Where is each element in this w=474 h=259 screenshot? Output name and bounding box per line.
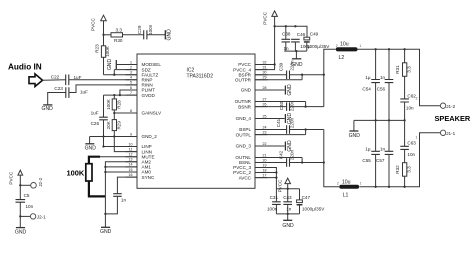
svg-text:L1: L1 bbox=[343, 193, 349, 199]
ground (bottom PVCC caps) bbox=[282, 214, 294, 229]
wire AVCC/PVCC_2/PVCC_3 bbox=[255, 168, 276, 189]
svg-text:14: 14 bbox=[129, 163, 133, 167]
svg-text:C43: C43 bbox=[283, 195, 292, 200]
svg-text:20K: 20K bbox=[106, 120, 111, 129]
capacitor C63 10n bbox=[400, 120, 416, 157]
power flag PVCC (top right) bbox=[263, 11, 278, 26]
svg-text:C22: C22 bbox=[51, 75, 60, 80]
svg-text:C31: C31 bbox=[270, 195, 279, 200]
svg-text:220n: 220n bbox=[289, 100, 294, 111]
svg-text:3.3: 3.3 bbox=[407, 166, 412, 173]
svg-text:J1-2: J1-2 bbox=[446, 104, 455, 109]
wire SYNC to cap bbox=[117, 177, 137, 193]
node OUT- rail junction bbox=[323, 161, 325, 163]
svg-text:PVCC: PVCC bbox=[263, 11, 268, 24]
node C57 bottom tap bbox=[388, 186, 390, 188]
svg-text:100K: 100K bbox=[67, 169, 85, 178]
IC2 right pin stubs bbox=[255, 65, 268, 178]
svg-text:29: 29 bbox=[263, 76, 267, 80]
wire L2 output bbox=[358, 49, 441, 105]
svg-text:C29: C29 bbox=[137, 25, 142, 34]
svg-text:GND_4: GND_4 bbox=[236, 116, 252, 121]
wire OUT+ rail to L2 bbox=[324, 49, 336, 106]
svg-text:GND: GND bbox=[100, 229, 112, 235]
wire to J2-1 bbox=[20, 215, 30, 217]
node GND_2 junctions bbox=[102, 135, 104, 137]
svg-text:1: 1 bbox=[360, 44, 362, 48]
svg-text:C55: C55 bbox=[362, 158, 371, 163]
IC2 left pin stubs bbox=[126, 65, 138, 178]
wire SDZ/FAULTZ pullup bbox=[104, 70, 138, 75]
svg-text:25: 25 bbox=[263, 114, 267, 118]
svg-text:15: 15 bbox=[129, 168, 133, 172]
svg-text:9: 9 bbox=[130, 132, 132, 136]
wire to J2-2 bbox=[20, 184, 30, 186]
svg-text:3.3: 3.3 bbox=[407, 66, 412, 73]
svg-text:21: 21 bbox=[263, 153, 267, 157]
IC2 left pin numbers bbox=[129, 60, 133, 177]
svg-text:1000µ/35V: 1000µ/35V bbox=[307, 44, 330, 49]
svg-text:24: 24 bbox=[263, 125, 267, 129]
svg-text:GND: GND bbox=[42, 106, 54, 112]
svg-text:2: 2 bbox=[336, 44, 338, 48]
svg-text:R31: R31 bbox=[395, 65, 400, 74]
svg-text:BSNR: BSNR bbox=[238, 104, 251, 109]
svg-text:C23: C23 bbox=[54, 86, 63, 91]
svg-text:10u: 10u bbox=[342, 180, 351, 186]
ground (GND_2) bbox=[85, 137, 97, 152]
svg-text:220n: 220n bbox=[289, 117, 294, 128]
wire bottom PVCC bus bbox=[276, 188, 299, 190]
svg-text:1uF: 1uF bbox=[80, 89, 88, 94]
svg-text:10n: 10n bbox=[407, 152, 415, 157]
wire bottom ground bus bbox=[276, 213, 299, 215]
svg-text:C46: C46 bbox=[297, 32, 306, 37]
inductor L1 10u bbox=[337, 180, 362, 199]
svg-text:GND: GND bbox=[166, 29, 172, 41]
node C55 bottom tap bbox=[374, 186, 376, 188]
svg-text:17: 17 bbox=[263, 173, 267, 177]
svg-text:20: 20 bbox=[263, 158, 267, 162]
svg-text:C49: C49 bbox=[310, 32, 319, 37]
svg-text:GND_2: GND_2 bbox=[142, 134, 158, 139]
ground (C23) bbox=[42, 105, 54, 112]
svg-text:C26: C26 bbox=[91, 121, 100, 126]
wire R30 feed bbox=[104, 34, 112, 36]
capacitor C5 10n bbox=[16, 185, 34, 216]
ground (pin 28 GND) bbox=[255, 84, 293, 96]
svg-text:19: 19 bbox=[263, 163, 267, 167]
ground (right of C29) bbox=[165, 29, 172, 41]
node FAULTZ junction bbox=[113, 74, 115, 76]
wire LINN to ground net bbox=[114, 137, 137, 152]
resistor R28 100K bbox=[106, 95, 122, 113]
capacitor C46 100u bbox=[291, 32, 311, 51]
IC2 left pin labels bbox=[142, 62, 163, 180]
wire PLIMT tie to GVDD bbox=[120, 90, 137, 95]
wire OUTPL bbox=[255, 130, 306, 135]
node C46 tap bbox=[294, 25, 296, 27]
svg-text:2: 2 bbox=[130, 65, 132, 69]
svg-text:8: 8 bbox=[130, 109, 132, 113]
connector J1-2 bbox=[416, 97, 456, 109]
capacitor C43 1n bbox=[283, 189, 292, 214]
svg-text:GND: GND bbox=[282, 223, 294, 229]
svg-text:1uF: 1uF bbox=[91, 111, 99, 116]
svg-text:1n: 1n bbox=[284, 46, 290, 51]
svg-text:31: 31 bbox=[263, 65, 267, 69]
svg-text:10n: 10n bbox=[406, 106, 414, 111]
svg-text:C47: C47 bbox=[302, 195, 311, 200]
svg-text:1n: 1n bbox=[286, 207, 292, 212]
svg-text:11: 11 bbox=[129, 147, 133, 151]
inductor L2 10u bbox=[336, 41, 362, 61]
wire OUT- rail to L1 bbox=[324, 130, 340, 187]
svg-text:C54: C54 bbox=[362, 87, 371, 92]
op-amp IC2 body bbox=[137, 54, 255, 188]
wire top ground bus bbox=[284, 50, 307, 52]
wire PVCC rail to pins 32/31 bbox=[255, 26, 275, 69]
connector J1-1 bbox=[416, 130, 456, 140]
svg-text:1n: 1n bbox=[121, 198, 127, 203]
wire OUTNR bbox=[255, 102, 306, 107]
svg-text:1n: 1n bbox=[380, 75, 386, 80]
svg-text:L2: L2 bbox=[339, 55, 345, 61]
svg-text:R23: R23 bbox=[94, 44, 99, 53]
svg-text:R28: R28 bbox=[117, 100, 122, 109]
svg-text:OUTPR: OUTPR bbox=[235, 78, 252, 83]
node R31 tap bbox=[403, 48, 405, 50]
svg-text:1000µ/35V: 1000µ/35V bbox=[302, 207, 325, 212]
svg-text:10u: 10u bbox=[340, 41, 349, 47]
wire GVDD line bbox=[104, 94, 138, 96]
ground (MODSEL pin 1) bbox=[107, 59, 137, 71]
wire OUTPR bbox=[255, 75, 302, 80]
node PVCC junction bbox=[102, 34, 104, 36]
svg-text:1uF: 1uF bbox=[74, 75, 82, 80]
svg-text:26: 26 bbox=[263, 102, 267, 106]
capacitor C41 220n (bootstrap PL) bbox=[255, 117, 324, 133]
svg-text:22: 22 bbox=[263, 142, 267, 146]
node mid bus junctions bbox=[374, 119, 376, 121]
wire OUTNL bbox=[255, 158, 302, 163]
svg-text:1: 1 bbox=[360, 182, 362, 186]
connector J2-1 bbox=[30, 214, 46, 220]
IC2 right pin labels bbox=[233, 62, 252, 180]
svg-text:GND_3: GND_3 bbox=[236, 144, 252, 149]
node PVCC pin junction bbox=[273, 63, 275, 65]
svg-text:1µ: 1µ bbox=[365, 75, 371, 80]
node C56 tap bbox=[388, 48, 390, 50]
capacitor C26 1uF (GVDD bypass) bbox=[91, 95, 108, 136]
svg-text:GND: GND bbox=[85, 145, 97, 151]
capacitor C22 1uF bbox=[51, 75, 82, 86]
svg-text:PVCC: PVCC bbox=[91, 18, 96, 31]
power flag PVCC (bottom right) bbox=[278, 178, 291, 192]
svg-text:220n: 220n bbox=[289, 149, 294, 160]
svg-text:SYNC: SYNC bbox=[142, 175, 155, 180]
capacitor C49 1000u/35V bbox=[304, 32, 330, 51]
node AVCC junction bbox=[275, 176, 277, 178]
svg-text:3: 3 bbox=[130, 71, 132, 75]
svg-text:30: 30 bbox=[263, 71, 267, 75]
svg-text:3.3: 3.3 bbox=[116, 28, 123, 33]
svg-text:10: 10 bbox=[129, 142, 133, 146]
ground (J2) bbox=[15, 216, 27, 235]
node OUT+ rail junction bbox=[323, 74, 325, 76]
node bottom bus junction bbox=[287, 188, 289, 190]
svg-text:C41: C41 bbox=[276, 118, 281, 127]
svg-text:GND: GND bbox=[107, 59, 113, 71]
node PVCC_2 junction bbox=[275, 171, 277, 173]
node GAINSLV junction bbox=[113, 112, 115, 114]
capacitor C57 1n bbox=[376, 120, 393, 186]
svg-text:6: 6 bbox=[130, 86, 132, 90]
resistor R31 3.3 bbox=[395, 49, 411, 98]
svg-text:PVCC: PVCC bbox=[278, 179, 283, 192]
ground (pin 25 GND_4) bbox=[255, 113, 293, 125]
wire AM2/AM1/AM0 to ground bbox=[105, 162, 137, 214]
svg-text:27: 27 bbox=[263, 97, 267, 101]
svg-text:J2-1: J2-1 bbox=[37, 215, 46, 220]
svg-text:OUTPL: OUTPL bbox=[236, 132, 252, 137]
svg-text:R29: R29 bbox=[117, 121, 122, 130]
svg-text:1: 1 bbox=[130, 60, 132, 64]
capacitor C47 1000u/35V bbox=[297, 189, 326, 214]
svg-text:C62: C62 bbox=[407, 94, 416, 99]
node PVCC feed junction bbox=[273, 25, 275, 27]
wire C29 to ground bbox=[147, 34, 165, 36]
wire mid ground bus bbox=[354, 119, 405, 121]
svg-text:GND: GND bbox=[241, 88, 252, 93]
power flag PVCC (top left) bbox=[91, 15, 107, 35]
svg-text:C56: C56 bbox=[377, 87, 386, 92]
node ground bus junction bbox=[295, 50, 297, 52]
wire PVCC decoupling feed bbox=[275, 26, 307, 37]
node J2-1 junction bbox=[19, 215, 21, 217]
svg-text:23: 23 bbox=[263, 130, 267, 134]
svg-text:GVDD: GVDD bbox=[142, 93, 156, 98]
capacitor C29 100n bbox=[137, 24, 153, 39]
svg-text:J1-1: J1-1 bbox=[446, 131, 455, 136]
node BSNL/OUTNL junction bbox=[301, 161, 303, 163]
svg-text:AVCC: AVCC bbox=[239, 175, 252, 180]
ground (PVCC top caps) bbox=[291, 51, 303, 68]
svg-text:GND: GND bbox=[287, 84, 293, 96]
svg-text:TPA3116D2: TPA3116D2 bbox=[187, 73, 214, 79]
svg-text:C5: C5 bbox=[24, 193, 30, 198]
connector arrow Audio IN bbox=[29, 74, 43, 87]
node BSNR/OUTNR junction bbox=[304, 105, 306, 107]
node GVDD junctions bbox=[113, 94, 115, 96]
capacitor C38 1n bbox=[282, 26, 291, 51]
svg-text:28: 28 bbox=[263, 86, 267, 90]
svg-text:PVCC: PVCC bbox=[9, 171, 14, 184]
svg-text:1n: 1n bbox=[380, 146, 386, 151]
wire MUTE bbox=[98, 156, 137, 158]
wire LINP to ground net bbox=[104, 137, 138, 147]
svg-text:C40: C40 bbox=[279, 101, 284, 110]
svg-text:GAINSLV: GAINSLV bbox=[142, 111, 163, 116]
svg-text:100n: 100n bbox=[148, 24, 153, 35]
resistor R30 3.3 bbox=[111, 28, 123, 44]
svg-text:100K: 100K bbox=[106, 98, 111, 110]
node AM1 junction bbox=[104, 166, 106, 168]
svg-text:C39: C39 bbox=[279, 62, 284, 71]
svg-text:100n: 100n bbox=[267, 207, 278, 212]
svg-text:GND: GND bbox=[15, 230, 27, 236]
resistor R29 20K bbox=[106, 113, 122, 137]
node BSPR/OUTPR junction bbox=[301, 74, 303, 76]
capacitor C40 220n (bootstrap NR) bbox=[255, 100, 324, 111]
wire ground to C23 bbox=[48, 93, 66, 105]
node C54 tap bbox=[374, 48, 376, 50]
capacitor C56 1n bbox=[377, 49, 394, 120]
svg-text:4: 4 bbox=[130, 76, 132, 80]
node J2 junction bbox=[19, 184, 21, 186]
svg-text:220n: 220n bbox=[289, 60, 294, 71]
svg-text:GND: GND bbox=[349, 133, 361, 139]
ground (pin 22 GND_3) bbox=[255, 140, 293, 152]
svg-text:C57: C57 bbox=[376, 158, 385, 163]
capacitor 1n (SYNC) bbox=[105, 194, 126, 214]
node R32 bottom tap bbox=[403, 186, 405, 188]
svg-text:16: 16 bbox=[129, 173, 133, 177]
capacitor C55 1u bbox=[362, 120, 380, 186]
wire C22 to RINP bbox=[69, 79, 137, 81]
power flag PVCC (supply input J2) bbox=[9, 170, 23, 185]
node C38 tap bbox=[285, 25, 287, 27]
node ground net junction bbox=[104, 213, 106, 215]
svg-text:5: 5 bbox=[130, 81, 132, 85]
capacitor C39 220n (bootstrap R) bbox=[255, 60, 324, 79]
svg-text:18: 18 bbox=[263, 168, 267, 172]
resistor R23 bbox=[94, 35, 110, 75]
wire L1 output bbox=[359, 133, 440, 187]
svg-text:10n: 10n bbox=[26, 204, 34, 209]
wire R30 to C29 bbox=[123, 34, 144, 36]
svg-text:C63: C63 bbox=[407, 141, 416, 146]
svg-text:1µ: 1µ bbox=[365, 146, 371, 151]
svg-text:R30: R30 bbox=[114, 38, 123, 43]
svg-text:1: 1 bbox=[416, 136, 418, 140]
node AM0 junction bbox=[104, 171, 106, 173]
capacitor C62 10n bbox=[400, 94, 416, 121]
node bottom ground junction bbox=[287, 213, 289, 215]
ground (AM/SYNC net) bbox=[100, 214, 112, 235]
capacitor C31 100n bbox=[267, 189, 281, 214]
svg-text:C38: C38 bbox=[282, 32, 291, 37]
capacitor C42 220n (bootstrap NL) bbox=[255, 149, 324, 166]
svg-text:7: 7 bbox=[130, 91, 132, 95]
node BSPL/OUTPL junction bbox=[304, 128, 306, 130]
resistor 100K (bold, mute pulldown) bbox=[67, 157, 106, 197]
svg-text:32: 32 bbox=[263, 60, 267, 64]
IC2 right pin numbers bbox=[263, 60, 267, 177]
svg-text:2: 2 bbox=[337, 182, 339, 186]
connector J2-2 bbox=[31, 177, 43, 188]
svg-text:J2-2: J2-2 bbox=[38, 177, 43, 186]
svg-text:SPEAKER: SPEAKER bbox=[435, 114, 471, 123]
capacitor C23 1uF bbox=[54, 86, 88, 98]
svg-text:2: 2 bbox=[416, 97, 418, 101]
wire GAINSLV bbox=[114, 112, 137, 114]
wire C23 to RINN bbox=[69, 85, 137, 93]
svg-text:100K: 100K bbox=[105, 45, 110, 57]
wire GND_2 line bbox=[90, 136, 137, 138]
svg-text:13: 13 bbox=[129, 158, 133, 162]
wire arrow to C22 bbox=[43, 79, 66, 81]
resistor R32 3.3 bbox=[395, 150, 411, 187]
ground (speaker filter) bbox=[349, 120, 361, 139]
capacitor C54 1u bbox=[362, 49, 380, 120]
svg-text:R32: R32 bbox=[395, 165, 400, 174]
svg-text:12: 12 bbox=[129, 153, 133, 157]
svg-text:Audio IN: Audio IN bbox=[8, 63, 42, 72]
